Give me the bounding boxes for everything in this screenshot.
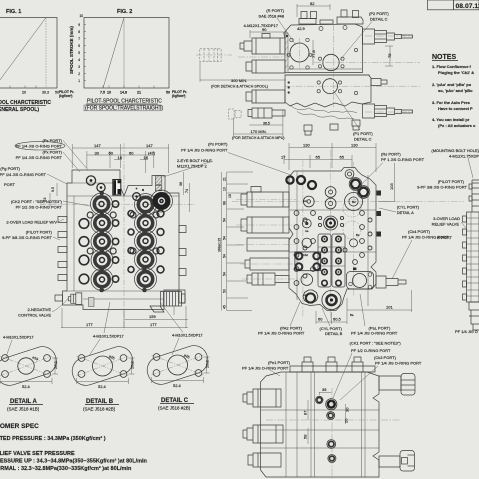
svg-text:147: 147 bbox=[94, 143, 101, 148]
svg-text:(R PORT): (R PORT) bbox=[266, 8, 284, 13]
right long protrusion bbox=[379, 374, 415, 396]
svg-text:(CK2 PORT : "SEE NOTE3"): (CK2 PORT : "SEE NOTE3") bbox=[11, 199, 63, 204]
eye bolt hatched boss bbox=[155, 176, 162, 185]
svg-text:9-PF 3/8 JIS O-RING PORT: 9-PF 3/8 JIS O-RING PORT bbox=[2, 235, 52, 240]
centerline vertical bbox=[123, 143, 125, 330]
svg-text:30.3: 30.3 bbox=[42, 91, 49, 95]
left solenoid stack of center view bbox=[241, 187, 289, 286]
center target port bbox=[324, 216, 338, 230]
svg-text:ENERAL SPOOL): ENERAL SPOOL) bbox=[0, 107, 39, 113]
black port rect bbox=[113, 180, 121, 196]
svg-text:26.2: 26.2 bbox=[205, 359, 210, 368]
svg-text:54: 54 bbox=[223, 218, 227, 222]
svg-text:Be: Be bbox=[356, 233, 360, 237]
bottom end plug left bbox=[68, 293, 82, 305]
labels top right of front bbox=[177, 142, 228, 169]
inner lines bbox=[261, 372, 380, 477]
svg-text:87: 87 bbox=[303, 410, 308, 415]
detail flange A bbox=[0, 336, 60, 412]
svg-text:PF 1/2 JIS O-RING PORT: PF 1/2 JIS O-RING PORT bbox=[16, 205, 63, 210]
small holes top of plan body bbox=[319, 27, 323, 31]
svg-text:(CYL PORT): (CYL PORT) bbox=[397, 205, 420, 210]
centerlines center view bbox=[232, 150, 464, 322]
svg-text:4-M10X1.5XDP17: 4-M10X1.5XDP17 bbox=[3, 336, 34, 340]
svg-text:(FOR DETACH & ATTACH MPU): (FOR DETACH & ATTACH MPU) bbox=[232, 136, 285, 140]
plan dims bbox=[234, 4, 393, 136]
leader lines left labels bbox=[47, 141, 90, 241]
svg-text:Bd: Bd bbox=[352, 200, 356, 204]
right mounting pad bbox=[347, 272, 374, 290]
notes block bbox=[432, 54, 476, 128]
svg-text:7: 7 bbox=[78, 37, 80, 41]
svg-text:(SAE J518 #2B): (SAE J518 #2B) bbox=[158, 406, 191, 411]
svg-text:DETAIL A: DETAIL A bbox=[397, 210, 414, 215]
svg-text:68: 68 bbox=[223, 201, 227, 205]
svg-text:PF 1/4 JIS O: PF 1/4 JIS O bbox=[455, 329, 478, 334]
svg-text:Aa1: Aa1 bbox=[303, 293, 308, 297]
svg-text:PF 1/4 JIS O-RING PORT: PF 1/4 JIS O-RING PORT bbox=[351, 331, 398, 336]
svg-text:(Px PORT): (Px PORT) bbox=[43, 150, 63, 155]
centerline vertical bottom view bbox=[331, 388, 333, 479]
svg-text:177: 177 bbox=[86, 322, 93, 327]
left solenoid block 1 bbox=[240, 34, 285, 55]
top bolt tabs bbox=[290, 357, 375, 372]
centerlines plan bbox=[238, 24, 420, 112]
svg-text:17: 17 bbox=[281, 155, 286, 160]
svg-text:4. You can install pr: 4. You can install pr bbox=[432, 117, 470, 122]
svg-text:3. For the Auto Pres: 3. For the Auto Pres bbox=[432, 100, 471, 105]
lower section outline bbox=[285, 75, 371, 107]
svg-text:7.5: 7.5 bbox=[100, 91, 105, 95]
bottom view ports bbox=[316, 396, 323, 403]
svg-text:4: 4 bbox=[78, 58, 80, 62]
svg-text:65: 65 bbox=[340, 155, 345, 160]
left solenoid block 2 bbox=[246, 60, 285, 73]
left solenoid block 3 bbox=[246, 90, 285, 103]
small circles grid left bbox=[294, 211, 372, 286]
svg-text:36: 36 bbox=[179, 182, 183, 186]
svg-text:(SAE J518 #2B): (SAE J518 #2B) bbox=[83, 407, 116, 412]
svg-text:1: 1 bbox=[78, 79, 80, 83]
svg-text:10: 10 bbox=[223, 187, 227, 191]
svg-text:(SAE J518 #1B): (SAE J518 #1B) bbox=[7, 407, 40, 412]
svg-text:DETAIL C: DETAIL C bbox=[161, 398, 189, 404]
svg-text:DETAIL B: DETAIL B bbox=[86, 399, 114, 405]
phantom small rects lower bbox=[229, 109, 242, 119]
svg-text:2. 'pAo' and 'pBo' po: 2. 'pAo' and 'pBo' po bbox=[432, 82, 472, 87]
top narrow stack bbox=[472, 180, 479, 212]
svg-text:52.4: 52.4 bbox=[98, 384, 107, 389]
inter-port dark dots bbox=[99, 191, 146, 293]
svg-text:(Ck4 PORT): (Ck4 PORT) bbox=[408, 229, 431, 234]
svg-text:21: 21 bbox=[223, 177, 227, 181]
svg-text:PF 1/4 JIS O-RING PORT: PF 1/4 JIS O-RING PORT bbox=[181, 148, 228, 153]
right tab lower bbox=[371, 79, 387, 86]
bottom ports of center view bbox=[303, 290, 318, 303]
svg-text:ATED PRESSURE : 34.3MPa (350Kg: ATED PRESSURE : 34.3MPa (350Kgf/cm² ) bbox=[0, 435, 106, 442]
svg-text:147: 147 bbox=[146, 143, 153, 148]
detail flange C bbox=[144, 334, 212, 411]
lower bore circle bbox=[323, 79, 338, 94]
svg-text:60.5: 60.5 bbox=[333, 317, 342, 322]
svg-text:26.2: 26.2 bbox=[53, 360, 58, 369]
left dimension ladder bbox=[222, 172, 254, 311]
svg-text:(Pn1 PORT): (Pn1 PORT) bbox=[268, 360, 291, 365]
small bolt circles bbox=[79, 201, 164, 284]
svg-text:9.5: 9.5 bbox=[51, 187, 55, 192]
svg-text:(Ck3 PORT): (Ck3 PORT) bbox=[374, 355, 397, 360]
svg-text:101: 101 bbox=[386, 305, 393, 310]
body outline bbox=[63, 170, 180, 310]
big ports right column bbox=[135, 194, 157, 291]
main stack bbox=[467, 212, 479, 302]
svg-text:(CK1 PORT : "SEE NOTE3"): (CK1 PORT : "SEE NOTE3") bbox=[350, 341, 402, 346]
svg-text:42.9: 42.9 bbox=[297, 26, 306, 31]
section view (center) bbox=[218, 143, 465, 337]
svg-text:159: 159 bbox=[149, 314, 156, 319]
svg-text:54: 54 bbox=[223, 254, 227, 258]
svg-text:20: 20 bbox=[22, 91, 26, 95]
svg-text:4-M10X1.5XDP17: 4-M10X1.5XDP17 bbox=[172, 334, 203, 338]
svg-text:3: 3 bbox=[78, 65, 80, 69]
svg-text:60: 60 bbox=[109, 150, 114, 155]
svg-text:PF 1/4 JIS O-RING PORT: PF 1/4 JIS O-RING PORT bbox=[242, 366, 289, 371]
right lower protrusion bbox=[379, 451, 415, 472]
svg-text:PF 1/4 JIS O-RING PORT: PF 1/4 JIS O-RING PORT bbox=[258, 331, 305, 336]
bottom taper bbox=[469, 302, 479, 330]
svg-text:(kgf/cm²): (kgf/cm²) bbox=[59, 94, 72, 98]
svg-text:SAE J518 #48: SAE J518 #48 bbox=[258, 14, 284, 19]
svg-text:FIG. 1: FIG. 1 bbox=[6, 9, 21, 15]
plan labels bbox=[244, 8, 285, 28]
svg-text:G PORT: G PORT bbox=[437, 235, 453, 240]
svg-text:PF 1/4 JIS O-RING PORT: PF 1/4 JIS O-RING PORT bbox=[0, 172, 47, 177]
front view valve body bbox=[0, 138, 291, 333]
svg-text:PF 1/4 JIS O-RING PORT: PF 1/4 JIS O-RING PORT bbox=[16, 155, 63, 160]
svg-text:1. Flow Confluence f: 1. Flow Confluence f bbox=[432, 64, 472, 69]
side view labels bbox=[417, 148, 479, 240]
top bolt tabs bbox=[299, 10, 363, 24]
top-left ringed circles bbox=[286, 176, 368, 196]
svg-text:50: 50 bbox=[166, 91, 170, 95]
svg-text:(FOR DETACH & ATTACH SPOOL): (FOR DETACH & ATTACH SPOOL) bbox=[211, 85, 268, 89]
svg-text:4-M12X1.75XDP17: 4-M12X1.75XDP17 bbox=[244, 23, 279, 28]
svg-text:9-PF 3/8 JIS O-RING PORT: 9-PF 3/8 JIS O-RING PORT bbox=[417, 185, 467, 190]
svg-text:45: 45 bbox=[223, 305, 227, 309]
body inner step lines bbox=[67, 183, 179, 299]
bottom dims bbox=[61, 306, 188, 328]
section split band bbox=[285, 69, 370, 75]
svg-text:Ab2: Ab2 bbox=[303, 253, 308, 257]
svg-text:26.2: 26.2 bbox=[130, 360, 135, 369]
leader 4-M10X1.5XDP17 front bbox=[104, 302, 110, 333]
left dims bbox=[50, 183, 57, 207]
left solenoids bottom view bbox=[243, 389, 283, 467]
svg-text:RESSURE UP : 34.3~34.8MPa(350~: RESSURE UP : 34.3~34.8MPa(350~355Kgf/cm²… bbox=[0, 458, 148, 465]
svg-text:3-OVER LOAD: 3-OVER LOAD bbox=[433, 216, 460, 221]
svg-text:177: 177 bbox=[150, 322, 157, 327]
svg-text:ORMAL : 32.3~32.8MPa(3: ORMAL : 32.3~32.8MPa(330~335Kgf/cm² )at … bbox=[0, 465, 132, 472]
svg-text:Ba: Ba bbox=[350, 313, 354, 317]
svg-text:10: 10 bbox=[107, 91, 111, 95]
svg-text:300 MIN.: 300 MIN. bbox=[231, 78, 247, 83]
svg-text:4-M12X1.75XDP: 4-M12X1.75XDP bbox=[449, 154, 479, 159]
svg-text:58: 58 bbox=[303, 434, 308, 439]
bottom hatched detail bbox=[89, 298, 95, 307]
svg-text:16: 16 bbox=[144, 155, 149, 160]
bolt heads left of side view bbox=[463, 216, 467, 300]
right edge bolt squares bbox=[377, 191, 382, 237]
date box bbox=[428, 0, 479, 10]
svg-text:82: 82 bbox=[310, 1, 315, 6]
svg-text:2: 2 bbox=[78, 72, 80, 76]
graph FIG.1 bbox=[0, 9, 74, 113]
svg-text:10: 10 bbox=[79, 14, 83, 18]
center view dims bottom bbox=[316, 290, 412, 324]
svg-text:DETAIL C: DETAIL C bbox=[354, 137, 372, 142]
dashed bolt circle around center bbox=[343, 199, 361, 217]
svg-text:SPOOL STROKE (mm): SPOOL STROKE (mm) bbox=[69, 26, 74, 74]
top small circles bbox=[86, 176, 140, 200]
svg-text:(P1 PORT): (P1 PORT) bbox=[353, 131, 373, 136]
svg-text:PILOT-SPOOL CHARCTERISTIC: PILOT-SPOOL CHARCTERISTIC bbox=[87, 99, 162, 105]
svg-text:14.8: 14.8 bbox=[120, 91, 127, 95]
dark filled port top right bbox=[151, 190, 173, 212]
svg-text:30: 30 bbox=[345, 407, 350, 412]
detail flange B bbox=[69, 335, 137, 412]
svg-text:08.07.11: 08.07.11 bbox=[456, 3, 479, 10]
svg-text:4-M10X1.5XDP17: 4-M10X1.5XDP17 bbox=[93, 335, 124, 339]
svg-text:18: 18 bbox=[228, 194, 232, 198]
middle bore circle bbox=[323, 54, 339, 70]
svg-text:60: 60 bbox=[129, 150, 134, 155]
svg-text:(P2 PORT): (P2 PORT) bbox=[369, 11, 389, 16]
bottom view dims bbox=[308, 392, 346, 444]
svg-text:103: 103 bbox=[389, 183, 394, 190]
body outline bbox=[261, 372, 380, 477]
svg-text:30: 30 bbox=[95, 150, 100, 155]
svg-text:RELIEF VALVE: RELIEF VALVE bbox=[432, 222, 460, 227]
central plug cluster bbox=[318, 234, 345, 287]
right end cap bbox=[179, 290, 185, 303]
svg-text:(MOUNTING BOLT HOLE): (MOUNTING BOLT HOLE) bbox=[431, 148, 479, 153]
inner small text marks bbox=[303, 199, 360, 317]
svg-text:PORT: PORT bbox=[4, 182, 16, 187]
right actuator P2 bbox=[363, 29, 413, 44]
svg-text:50: 50 bbox=[223, 289, 227, 293]
left end plug bbox=[55, 295, 63, 301]
customer spec bbox=[0, 423, 148, 472]
svg-text:Ad: Ad bbox=[303, 199, 307, 203]
left relief valve tabs bbox=[58, 217, 67, 281]
svg-text:PF 1/2 O-RING PORT: PF 1/2 O-RING PORT bbox=[351, 348, 391, 353]
svg-text:74: 74 bbox=[185, 189, 189, 193]
svg-text:65: 65 bbox=[316, 155, 321, 160]
svg-text:OOL CHARCTERISTIC: OOL CHARCTERISTIC bbox=[0, 100, 51, 106]
svg-text:36.5: 36.5 bbox=[263, 122, 270, 126]
phantom solenoid (detach clearance) bbox=[200, 49, 221, 62]
svg-text:DETAIL A: DETAIL A bbox=[10, 399, 38, 405]
right actuator P1 bbox=[363, 104, 413, 118]
svg-text:60: 60 bbox=[318, 317, 323, 322]
negative control ribbed cap right bbox=[150, 292, 185, 313]
svg-text:2-OVER LOAD RELIEF W/V: 2-OVER LOAD RELIEF W/V bbox=[6, 220, 57, 225]
inner lines bbox=[289, 171, 376, 306]
right side port boss bbox=[376, 276, 406, 288]
svg-text:20: 20 bbox=[344, 418, 349, 423]
svg-text:6: 6 bbox=[78, 44, 80, 48]
svg-text:Pluging the 'Ck1' &: Pluging the 'Ck1' & bbox=[438, 70, 474, 75]
svg-text:(Px PORT): (Px PORT) bbox=[208, 142, 228, 147]
big ports left column bbox=[91, 193, 157, 291]
svg-text:21: 21 bbox=[137, 91, 141, 95]
plan view (top) bbox=[196, 1, 420, 142]
svg-text:170 MIN.: 170 MIN. bbox=[251, 129, 267, 134]
svg-text:(Px : All actuators o: (Px : All actuators o bbox=[438, 123, 476, 128]
svg-text:NOTES: NOTES bbox=[432, 54, 456, 61]
labels left column bbox=[0, 138, 65, 240]
svg-text:78: 78 bbox=[387, 53, 392, 58]
center view dims top bbox=[284, 143, 376, 172]
svg-text:16: 16 bbox=[118, 155, 123, 160]
main body outline upper section bbox=[284, 24, 363, 73]
svg-text:368±0.25: 368±0.25 bbox=[218, 238, 222, 252]
svg-text:FIG. 2: FIG. 2 bbox=[117, 9, 132, 15]
svg-text:5: 5 bbox=[78, 51, 80, 55]
svg-text:(47): (47) bbox=[148, 150, 156, 155]
bottom view bbox=[242, 341, 422, 479]
svg-text:2-EYE BOLT HOLE: 2-EYE BOLT HOLE bbox=[177, 158, 212, 163]
svg-text:(kgf/cm²): (kgf/cm²) bbox=[172, 94, 185, 98]
svg-text:130: 130 bbox=[303, 143, 310, 148]
sub-block with 4 dark rings bbox=[295, 252, 321, 271]
svg-text:8: 8 bbox=[78, 30, 80, 34]
svg-text:52.4: 52.4 bbox=[173, 383, 182, 388]
svg-text:CONTROL VALVE: CONTROL VALVE bbox=[18, 313, 51, 318]
svg-text:52.4: 52.4 bbox=[22, 384, 31, 389]
svg-text:(Rs PORT): (Rs PORT) bbox=[381, 152, 401, 157]
hatched left strip bbox=[285, 33, 288, 73]
svg-text:(PILOT PORT): (PILOT PORT) bbox=[438, 179, 465, 184]
svg-text:Ae: Ae bbox=[305, 229, 309, 233]
graph FIG.2 bbox=[69, 9, 187, 112]
svg-text:PF 1/4 JIS O-RING PORT: PF 1/4 JIS O-RING PORT bbox=[16, 144, 63, 149]
svg-text:77.8: 77.8 bbox=[311, 49, 316, 58]
svg-text:PF 1 JIS O-RING PORT: PF 1 JIS O-RING PORT bbox=[381, 157, 425, 162]
right edge tabs bbox=[179, 226, 186, 276]
svg-text:9: 9 bbox=[78, 23, 80, 27]
svg-text:130: 130 bbox=[351, 143, 358, 148]
side view (right) bbox=[417, 148, 479, 334]
big bore circle bbox=[290, 43, 309, 62]
centerline horizontal bbox=[40, 204, 195, 206]
dim lines above front view bbox=[72, 144, 169, 173]
bolt dots lower-left bbox=[288, 81, 290, 83]
svg-text:TOMER SPEC: TOMER SPEC bbox=[0, 423, 39, 430]
bottom tabs plan bbox=[304, 120, 360, 135]
svg-text:ELIEF VALVE SET PRESSURE: ELIEF VALVE SET PRESSURE bbox=[0, 451, 75, 457]
svg-text:(PILOT PORT): (PILOT PORT) bbox=[26, 230, 53, 235]
svg-text:(Pg PORT): (Pg PORT) bbox=[0, 166, 20, 171]
svg-text:DETAIL C: DETAIL C bbox=[370, 17, 388, 22]
svg-text:PF 1/4 JIS O-RING PORT: PF 1/4 JIS O-RING PORT bbox=[375, 361, 422, 366]
svg-text:so, 'pAo' and 'pBo: so, 'pAo' and 'pBo bbox=[438, 88, 473, 93]
svg-text:54: 54 bbox=[223, 272, 227, 276]
body outline bbox=[289, 168, 376, 311]
left small valve bbox=[248, 108, 285, 118]
svg-text:36: 36 bbox=[322, 387, 327, 392]
svg-text:2-NEGATIVE: 2-NEGATIVE bbox=[28, 307, 52, 312]
svg-text:Have to connect P: Have to connect P bbox=[438, 106, 473, 111]
bottom wavy casting bbox=[290, 105, 357, 113]
svg-text:54: 54 bbox=[223, 236, 227, 240]
svg-text:DETAIL B: DETAIL B bbox=[325, 331, 343, 336]
